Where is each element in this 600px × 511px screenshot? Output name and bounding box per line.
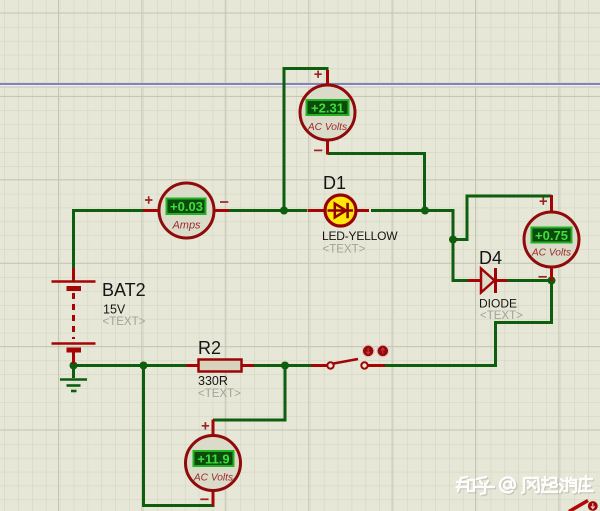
起	[542, 477, 557, 492]
switch toggle button left	[362, 345, 374, 357]
svg-text:R2: R2	[198, 338, 221, 358]
wire: bottom voltmeter plus riser	[213, 364, 285, 420]
svg-text:<TEXT>: <TEXT>	[103, 316, 146, 328]
wire: battery top to main row	[72, 210, 75, 270]
switch SW1	[311, 359, 385, 369]
知	[457, 477, 475, 491]
svg-text:+11.9: +11.9	[197, 452, 229, 467]
ground	[60, 364, 87, 391]
svg-text:15V: 15V	[103, 303, 126, 317]
diode D4	[468, 268, 507, 293]
svg-text:LED-YELLOW: LED-YELLOW	[322, 229, 398, 243]
voltmeter bottom (AC Volts +11.9)	[186, 420, 241, 507]
wire: diode to right voltmeter minus	[506, 279, 552, 282]
junction at battery minus	[70, 362, 78, 370]
wire: bottom row left	[72, 364, 188, 367]
voltmeter right (AC Volts +0.75)	[524, 195, 579, 281]
svg-text:DIODE: DIODE	[479, 297, 517, 311]
junction at node C (step)	[449, 236, 457, 244]
watermark 知乎 @风起鸿庄	[458, 477, 595, 495]
svg-text:Amps: Amps	[171, 220, 201, 232]
wire: main row left (battery corner to ammeter)	[72, 209, 145, 212]
wire: right voltmeter minus to switch row	[496, 279, 552, 367]
voltmeter top (AC Volts +2.31)	[300, 70, 355, 155]
svg-text:D1: D1	[323, 173, 346, 193]
switch toggle button right	[377, 345, 389, 357]
junction at bottom-left node	[140, 362, 148, 370]
LED D1 (LED-YELLOW)	[308, 195, 370, 226]
wire: LED to junction run	[371, 209, 455, 212]
svg-text:<TEXT>: <TEXT>	[480, 310, 523, 322]
junction at right voltmeter minus	[548, 277, 556, 285]
风	[522, 478, 539, 493]
svg-text:AC Volts: AC Volts	[531, 248, 571, 259]
svg-text:BAT2: BAT2	[102, 280, 146, 300]
svg-text:<TEXT>: <TEXT>	[198, 388, 241, 400]
svg-text:D4: D4	[479, 248, 502, 268]
cursor (red pencil)	[569, 501, 588, 511]
wire: top voltmeter minus drop	[328, 154, 425, 213]
svg-text:330R: 330R	[198, 374, 228, 388]
wire: resistor to switch	[253, 364, 313, 367]
svg-text:+0.03: +0.03	[170, 199, 203, 214]
wire: ammeter to LED	[228, 209, 307, 212]
svg-text:+0.75: +0.75	[535, 228, 568, 243]
wire: top voltmeter plus loop	[284, 69, 329, 213]
乎	[476, 477, 494, 494]
wire: bottom voltmeter minus loop	[144, 364, 215, 506]
sheet border line (blue)	[0, 83, 600, 85]
ammeter (Amps +0.03)	[143, 183, 229, 238]
junction at resistor right node	[281, 362, 289, 370]
wire: junction step down	[452, 210, 455, 241]
svg-text:AC Volts: AC Volts	[307, 122, 347, 133]
wire: switch row right	[384, 364, 497, 367]
鸿	[560, 478, 576, 492]
resistor R2	[186, 360, 254, 372]
junction at node B (voltmeter minus drop)	[421, 207, 429, 215]
svg-text:+2.31: +2.31	[311, 101, 344, 116]
junction at node A (top-left corner drop)	[280, 207, 288, 215]
庄	[579, 476, 593, 492]
wire: to right voltmeter plus	[452, 196, 552, 240]
wire: down to diode row	[453, 238, 470, 281]
svg-text:AC Volts: AC Volts	[193, 473, 233, 484]
@	[500, 477, 515, 492]
battery BAT2	[52, 268, 96, 367]
svg-text:<TEXT>: <TEXT>	[323, 244, 366, 256]
